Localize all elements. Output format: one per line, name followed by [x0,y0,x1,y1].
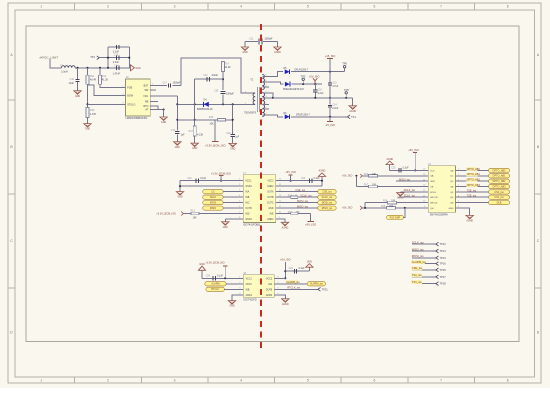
svg-text:ALARM_iso: ALARM_iso [310,283,324,286]
svg-text:BST: BST [144,85,149,88]
svg-text:C13: C13 [171,130,176,132]
svg-text:VCC1: VCC1 [246,278,253,280]
svg-text:+5V_ISO: +5V_ISO [342,174,352,178]
svg-text:2.2uF: 2.2uF [318,93,324,95]
svg-text:ISO7431FDBQ: ISO7431FDBQ [243,224,260,227]
svg-text:GND1: GND1 [245,186,252,188]
svg-text:C16: C16 [318,89,323,91]
svg-text:GND: GND [242,52,247,54]
svg-text:GND: GND [268,208,273,210]
svg-text:ISO7421FD: ISO7421FD [243,299,256,302]
svg-text:1000pF: 1000pF [173,82,181,84]
svg-text:QD: QD [450,181,454,183]
svg-text:GND: GND [223,227,228,229]
svg-text:GND: GND [229,306,234,308]
svg-text:2: 2 [107,5,109,9]
svg-text:OPTO_AB1: OPTO_AB1 [492,175,506,178]
svg-text:SCLK: SCLK [210,196,217,199]
svg-text:3: 3 [174,378,176,382]
svg-text:FGB: FGB [127,87,132,90]
svg-text:TX1: TX1 [351,115,356,119]
svg-text:TP5: TP5 [344,88,349,92]
svg-text:TX1_iso: TX1_iso [412,280,422,284]
svg-text:+5V_ISO: +5V_ISO [285,170,296,174]
svg-text:4.7uF: 4.7uF [332,86,338,88]
svg-text:0.1uF: 0.1uF [217,275,223,277]
svg-text:AGND: AGND [319,170,326,173]
svg-text:DFLR1200-7: DFLR1200-7 [296,114,310,117]
svg-text:4: 4 [240,5,242,9]
svg-text:AGND: AGND [386,158,393,161]
svg-text:10uF: 10uF [69,82,75,85]
svg-text:QH: QH [430,208,434,210]
svg-text:-15_ISO: -15_ISO [325,123,335,127]
svg-text:41.2K: 41.2K [102,79,109,82]
svg-text:10K: 10K [391,201,396,203]
svg-text:INC: INC [245,203,249,205]
svg-text:AGND: AGND [282,226,289,229]
svg-text:5: 5 [307,378,309,382]
svg-text:C20: C20 [391,167,396,169]
svg-text:+3.3V_BCM_ISO: +3.3V_BCM_ISO [205,262,224,265]
svg-text:2.2uF: 2.2uF [332,108,338,110]
svg-text:GND: GND [307,262,312,264]
svg-text:VCC1: VCC1 [245,181,252,183]
svg-text:8: 8 [507,5,509,9]
svg-text:TP15: TP15 [440,268,447,272]
svg-text:+5V_ISO: +5V_ISO [408,148,419,152]
svg-text:SRCLR: SRCLR [430,197,438,199]
svg-text:QE: QE [450,186,454,188]
svg-text:+5V_ISO: +5V_ISO [305,223,316,227]
svg-text:R18: R18 [383,201,388,203]
svg-text:C14: C14 [114,64,119,67]
svg-text:1.47nF: 1.47nF [113,72,121,75]
svg-text:750342879: 750342879 [244,111,257,114]
svg-text:R17: R17 [189,130,194,133]
svg-text:C24: C24 [206,275,211,277]
svg-text:TP13: TP13 [440,256,447,260]
svg-text:C22: C22 [187,178,192,180]
svg-text:MISO_iso: MISO_iso [322,207,333,210]
svg-text:TP21: TP21 [322,287,329,291]
svg-text:1uF: 1uF [181,134,186,136]
svg-text:QC: QC [450,176,454,178]
svg-text:1: 1 [40,5,42,9]
svg-text:1000pF: 1000pF [264,37,273,40]
svg-text:MOSI_iso: MOSI_iso [412,254,424,258]
svg-text:+5V_ISO: +5V_ISO [342,206,352,210]
svg-text:C15: C15 [332,82,337,84]
svg-text:CS0_iso: CS0_iso [494,191,504,194]
svg-text:0.1uF: 0.1uF [200,178,206,180]
svg-text:QG: QG [450,197,454,199]
svg-text:TS1_iso: TS1_iso [412,273,422,277]
svg-text:40.4K: 40.4K [90,79,97,82]
svg-text:8: 8 [507,378,509,382]
svg-text:+3.3V_BCM_ISO: +3.3V_BCM_ISO [211,171,231,175]
svg-text:QB: QB [450,170,454,172]
svg-text:TP12: TP12 [440,242,447,246]
svg-text:7: 7 [440,5,442,9]
svg-text:10K: 10K [209,123,214,126]
svg-text:OUTA: OUTA [246,283,253,286]
svg-text:MISO_iso: MISO_iso [412,247,424,251]
svg-text:C11: C11 [249,37,254,40]
svg-text:R16: R16 [364,174,369,176]
svg-text:SCLK_iso: SCLK_iso [322,196,333,199]
svg-text:SER: SER [430,181,435,183]
svg-text:GND2: GND2 [266,295,273,297]
svg-text:+3.3V_BCM_ISO: +3.3V_BCM_ISO [156,212,176,216]
svg-text:GND: GND [75,96,80,98]
svg-text:GND: GND [135,68,140,70]
svg-text:TP3: TP3 [301,74,306,78]
svg-text:OE: OE [430,186,434,188]
svg-text:AGND: AGND [274,51,281,54]
svg-text:OUTB: OUTB [266,289,273,291]
svg-text:OUTD: OUTD [245,208,252,210]
svg-text:5: 5 [307,5,309,9]
svg-text:3.3uH: 3.3uH [61,70,68,73]
svg-text:CS: CS [211,191,215,194]
svg-text:GND: GND [177,197,182,199]
svg-text:LM5017MRBGKPG: LM5017MRBGKPG [126,117,148,120]
svg-text:AGND: AGND [349,110,356,113]
svg-text:INB: INB [246,289,250,291]
svg-text:GND: GND [449,208,454,210]
svg-text:TSE_iso: TSE_iso [467,189,477,192]
svg-text:OPTO_AB0: OPTO_AB0 [492,169,506,172]
svg-text:C23: C23 [301,178,306,180]
svg-text:+15_ISO: +15_ISO [325,54,336,58]
svg-text:BGW: BGW [127,94,133,97]
svg-text:OPTO_AB2: OPTO_AB2 [467,179,481,182]
svg-text:SRCLK: SRCLK [430,203,438,205]
svg-text:1uF: 1uF [235,137,240,139]
svg-text:SN74HC595PW: SN74HC595PW [430,214,449,217]
svg-text:94.2K: 94.2K [224,66,231,69]
svg-text:+3.3V_BCM_ISO: +3.3V_BCM_ISO [205,143,226,147]
svg-text:PMEG6010ETR,115: PMEG6010ETR,115 [283,89,304,91]
svg-text:RTCLK: RTCLK [211,288,219,291]
svg-text:C10: C10 [70,78,75,81]
svg-text:TP16: TP16 [440,262,447,266]
svg-text:ALARM: ALARM [211,283,219,286]
svg-text:‹HFDC_LIMIT: ‹HFDC_LIMIT [39,55,58,59]
svg-text:C19: C19 [226,133,231,135]
svg-text:GND: GND [192,148,197,150]
svg-text:OUTA: OUTA [267,191,274,194]
svg-text:10K: 10K [372,174,377,176]
svg-text:OPTO_AB3: OPTO_AB3 [492,185,506,188]
svg-text:MISO: MISO [210,207,216,210]
svg-text:MOSI_iso: MOSI_iso [322,202,333,205]
svg-text:STGLO: STGLO [127,103,135,106]
svg-text:VCC2: VCC2 [266,278,273,280]
svg-text:GND: GND [85,129,90,131]
svg-text:TP17: TP17 [440,275,447,279]
svg-text:INA: INA [245,191,249,194]
svg-text:TP1: TP1 [90,55,95,59]
svg-text:AGND: AGND [282,303,289,306]
svg-text:QH: QH [450,203,454,205]
svg-text:OPTO_AB1: OPTO_AB1 [467,173,481,176]
svg-text:1: 1 [40,378,42,382]
svg-text:GND: GND [230,148,235,150]
svg-text:CS1_iso: CS1_iso [494,196,504,199]
svg-text:AGND: AGND [466,219,473,222]
svg-text:TP18: TP18 [440,282,447,286]
svg-text:R20 DNP: R20 DNP [390,216,401,219]
svg-text:C26: C26 [214,90,219,92]
svg-text:+5V_ISO: +5V_ISO [309,74,320,78]
svg-text:INA: INA [268,283,272,286]
svg-text:INE: INE [270,214,274,216]
svg-text:2: 2 [107,378,109,382]
svg-text:R15: R15 [209,116,214,119]
svg-text:VCC: VCC [430,170,435,172]
svg-text:DLB: DLB [497,202,502,205]
svg-text:OPTO_AB2: OPTO_AB2 [492,180,506,183]
svg-text:0.1uF: 0.1uF [299,268,305,270]
svg-text:10K: 10K [193,217,198,219]
svg-text:C12: C12 [203,75,208,77]
svg-text:+5V_ISO: +5V_ISO [280,258,291,262]
svg-text:4: 4 [240,378,242,382]
svg-text:GND1: GND1 [246,295,253,297]
svg-text:GND: GND [175,147,180,149]
svg-text:OPTO_AB0: OPTO_AB0 [467,168,481,171]
svg-text:4.21K: 4.21K [197,134,204,137]
svg-text:BZM55C30-1F: BZM55C30-1F [197,108,213,111]
svg-text:R13: R13 [191,210,196,212]
svg-text:R13: R13 [90,109,95,112]
svg-text:IND: IND [245,214,249,216]
svg-text:CSE_iso: CSE_iso [412,266,423,270]
svg-text:4.37K: 4.37K [90,113,97,116]
svg-text:TSE_iso: TSE_iso [467,195,477,198]
svg-text:C21: C21 [289,268,294,270]
svg-text:GND: GND [161,122,166,124]
svg-text:ALARM_iso: ALARM_iso [412,260,427,264]
svg-text:GND1: GND1 [245,219,252,221]
svg-text:C14: C14 [332,105,337,107]
svg-text:1000pF: 1000pF [226,94,234,96]
svg-text:R17: R17 [364,185,369,187]
svg-text:C17: C17 [163,82,168,84]
svg-text:VCC2: VCC2 [267,181,274,183]
svg-text:QA: QA [430,175,434,178]
svg-text:VCC: VCC [143,95,148,98]
svg-text:OUTC: OUTC [267,203,274,205]
svg-text:OPTO_AB3: OPTO_AB3 [467,184,481,187]
svg-text:GND2: GND2 [267,219,274,221]
svg-text:C13: C13 [114,54,119,57]
svg-text:RB: RB [145,100,149,103]
svg-text:3: 3 [174,5,176,9]
svg-text:6: 6 [374,5,376,9]
svg-text:10K: 10K [372,185,377,187]
svg-text:GND2: GND2 [267,186,274,188]
svg-text:INB: INB [245,197,249,199]
svg-text:6: 6 [374,378,376,382]
svg-text:7: 7 [440,378,442,382]
svg-text:MOSI: MOSI [210,202,216,205]
svg-text:TP14: TP14 [440,249,447,253]
svg-text:SCLK_iso: SCLK_iso [412,240,424,244]
svg-text:RCLK: RCLK [430,192,436,194]
svg-text:0.1uF: 0.1uF [403,167,409,169]
svg-text:R19: R19 [381,206,386,208]
svg-text:OUTB: OUTB [267,197,274,199]
svg-text:0.1uF: 0.1uF [314,178,320,180]
svg-text:100nF: 100nF [211,75,218,77]
svg-text:CSE_iso: CSE_iso [322,191,332,194]
svg-text:10K: 10K [389,206,394,208]
svg-text:TP6: TP6 [342,62,347,66]
